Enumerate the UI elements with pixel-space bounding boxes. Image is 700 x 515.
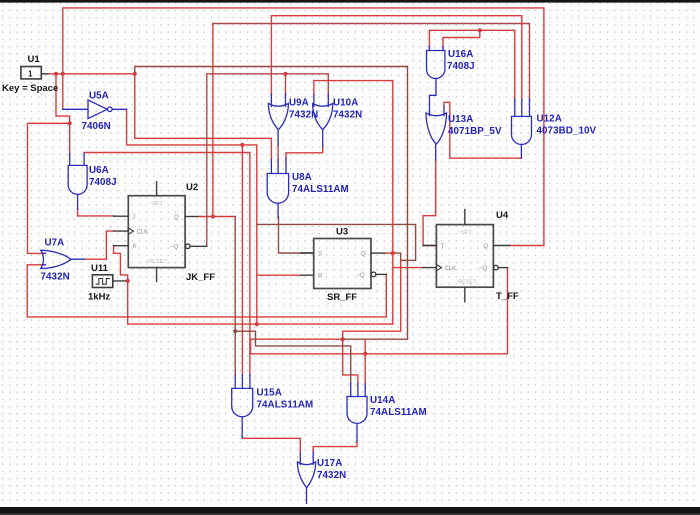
wire U1 net down to U5A input <box>62 74 64 110</box>
svg-text:U17A: U17A <box>317 458 342 469</box>
junction dot U1 b <box>61 72 65 76</box>
svg-text:7432N: 7432N <box>41 272 70 283</box>
wire U15A output to U17A input 1 <box>242 437 300 454</box>
wire Z jog from U3 Q dot (dark) <box>393 253 401 260</box>
switch U1 <box>21 67 48 79</box>
svg-text:74ALS11AM: 74ALS11AM <box>257 400 314 411</box>
svg-text:U16A: U16A <box>448 49 473 60</box>
svg-text:7432N: 7432N <box>289 110 318 121</box>
svg-text:~RESET: ~RESET <box>145 259 167 265</box>
wire U10A input1 stub riser <box>313 81 315 95</box>
wire U11 node down to y324 line <box>127 281 129 324</box>
wire U3 Q row to dot <box>385 252 393 254</box>
svg-text:U12A: U12A <box>537 114 562 125</box>
junction dot y74 U9A <box>283 72 287 76</box>
svg-text:U4: U4 <box>496 210 509 221</box>
svg-text:SR_FF: SR_FF <box>327 292 357 303</box>
wire U6A input2 long feed to U15A input 3 <box>84 153 250 376</box>
top toolbar bar <box>0 0 700 3</box>
and gate U14A <box>347 384 367 442</box>
junction dot U2 Q <box>211 214 215 218</box>
svg-text:U3: U3 <box>336 227 348 238</box>
and gate U6A <box>68 153 87 209</box>
svg-text:7406N: 7406N <box>82 121 111 132</box>
svg-text:~Q: ~Q <box>170 245 179 251</box>
svg-text:Q: Q <box>174 215 179 221</box>
svg-text:Key = Space: Key = Space <box>2 83 58 94</box>
svg-text:U10A: U10A <box>333 98 358 109</box>
junction dot y339 <box>341 337 345 341</box>
junction dot U16A join <box>478 28 482 32</box>
svg-text:7408J: 7408J <box>447 61 475 72</box>
svg-text:74ALS11AM: 74ALS11AM <box>370 407 427 418</box>
junction dot U3 Q <box>391 251 395 255</box>
svg-text:U14A: U14A <box>370 395 395 406</box>
svg-text:CLK: CLK <box>445 266 457 272</box>
wire node to U7A input 1 <box>28 123 70 253</box>
wire U16A input 1 to U12A input 1 <box>429 30 514 100</box>
and gate U8A <box>267 158 288 218</box>
svg-text:~SET: ~SET <box>458 230 473 236</box>
svg-text:4071BP_5V: 4071BP_5V <box>448 126 502 137</box>
svg-text:7432N: 7432N <box>333 110 362 121</box>
wire U1 switch output run <box>48 73 135 75</box>
flip-flop U2 JK_FF box <box>114 182 207 282</box>
or gate U7A <box>41 250 84 268</box>
or gate U9A <box>268 94 288 145</box>
svg-text:U5A: U5A <box>89 91 109 102</box>
svg-text:7408J: 7408J <box>89 177 117 188</box>
wire U2 Q row <box>198 216 236 218</box>
wire y324 line left to U11 node <box>128 323 393 325</box>
wire U5A output run <box>127 109 257 324</box>
wire y225 dark run to Z <box>257 224 416 260</box>
wire U8A output to U3 S (dark) <box>279 217 314 253</box>
svg-text:1: 1 <box>28 70 33 79</box>
svg-text:U1: U1 <box>28 54 41 65</box>
or gate U17A <box>297 452 315 503</box>
wire U9A output red part <box>277 144 279 161</box>
svg-text:Q: Q <box>361 251 366 257</box>
wire U10A input1 feed <box>314 80 393 82</box>
wire U2 ~Q up and across y74 (mid red) <box>207 74 328 247</box>
svg-text:~RESET: ~RESET <box>455 280 477 286</box>
wire U9A input1 up to line B to U12A input 2 <box>271 16 521 100</box>
svg-text:JK_FF: JK_FF <box>186 272 215 283</box>
svg-text:K: K <box>133 244 137 250</box>
wire U2 Q dark branch down to U15A input 1 <box>234 217 236 376</box>
junction dot U1 a <box>54 72 58 76</box>
wire U2 Q up to line C <box>212 24 214 217</box>
svg-text:CLK: CLK <box>137 230 149 236</box>
svg-text:U11: U11 <box>91 263 109 274</box>
pin labels U4 <box>441 230 489 286</box>
or gate U10A <box>313 95 333 147</box>
wire U1 junction to y66 line over to right (dark) <box>135 67 408 340</box>
junction dot U11 output <box>126 279 130 283</box>
junction dot U5A net <box>240 143 244 147</box>
and gate U16A <box>427 47 445 113</box>
wire U7A output to U2 CLK <box>84 231 113 259</box>
or gate U13A <box>426 106 447 160</box>
svg-text:T_FF: T_FF <box>496 291 519 302</box>
wire U1 junction up-corner and down to U8A input1 feed <box>135 74 272 160</box>
junction dot dark Q branch <box>233 329 237 333</box>
wire U4 Q to top line A to U1 junction <box>63 8 544 246</box>
svg-text:U9A: U9A <box>289 98 309 109</box>
svg-text:~Q: ~Q <box>357 273 366 279</box>
pin labels U3 <box>318 251 366 279</box>
wire clock T to U4 CLK <box>393 267 423 269</box>
svg-text:U7A: U7A <box>45 238 65 249</box>
svg-text:4073BD_10V: 4073BD_10V <box>537 126 597 137</box>
wire branch down to U9A input 2 <box>285 74 287 95</box>
wire clock net vertical x393 <box>392 81 394 325</box>
svg-text:U6A: U6A <box>89 165 109 176</box>
wire U13A output to U4 T <box>423 160 436 246</box>
wire U1 net zigzag down to node <box>56 74 70 124</box>
wire U13A input2 to U12A output <box>444 102 521 158</box>
wire U8A input 3 from U10A output <box>286 146 323 159</box>
clock source U11 <box>92 275 127 288</box>
junction dot y354 <box>363 352 367 356</box>
wire U2 K zigzag to U11 node <box>114 246 128 281</box>
wire node down to U6A input 1 <box>69 123 71 154</box>
inverter U5A <box>63 100 127 119</box>
wire U16A input 2 join <box>443 30 480 47</box>
flip-flop U4 T_FF box <box>423 210 509 302</box>
svg-text:U2: U2 <box>186 182 198 193</box>
wire U14A output to U17A input 2 <box>313 441 357 453</box>
svg-text:~Q: ~Q <box>479 266 488 272</box>
wire dark branch to U14A input 1 <box>235 331 351 384</box>
wire x400 down to U14A input 2 zigzag <box>343 260 401 384</box>
svg-text:S: S <box>318 251 322 257</box>
junction dot U1 c <box>133 72 137 76</box>
svg-text:7432N: 7432N <box>317 470 346 481</box>
pin labels U2 <box>133 201 180 265</box>
svg-text:U8A: U8A <box>292 172 312 183</box>
wire line C to U12A input 3 (dark) <box>213 24 530 101</box>
svg-text:T: T <box>441 244 445 250</box>
svg-text:~SET: ~SET <box>149 201 164 207</box>
svg-text:1kHz: 1kHz <box>88 292 110 303</box>
wire branch to U15A input 2 <box>241 145 243 376</box>
wire U3 ~Q to U7A input 2 <box>27 265 386 317</box>
svg-text:U13A: U13A <box>448 114 473 125</box>
wire branch to U3 R pin <box>257 274 301 276</box>
flip-flop U3 SR_FF box <box>301 239 387 289</box>
bottom status bar <box>0 507 700 515</box>
svg-text:J: J <box>133 215 136 221</box>
and gate U12A <box>512 99 532 158</box>
svg-text:Q: Q <box>484 244 489 250</box>
junction dot y324 R branch <box>255 322 259 326</box>
wire branch to U14A input 3 <box>364 339 366 384</box>
svg-text:R: R <box>318 274 323 280</box>
wire U6A output to U2 J <box>78 209 114 216</box>
svg-text:74ALS11AM: 74ALS11AM <box>292 184 349 195</box>
junction dot U7A/U6A node <box>68 121 72 125</box>
wire long horizontal U4 ~Q net <box>251 268 508 354</box>
svg-text:U15A: U15A <box>257 388 282 399</box>
and gate U15A <box>232 375 253 438</box>
